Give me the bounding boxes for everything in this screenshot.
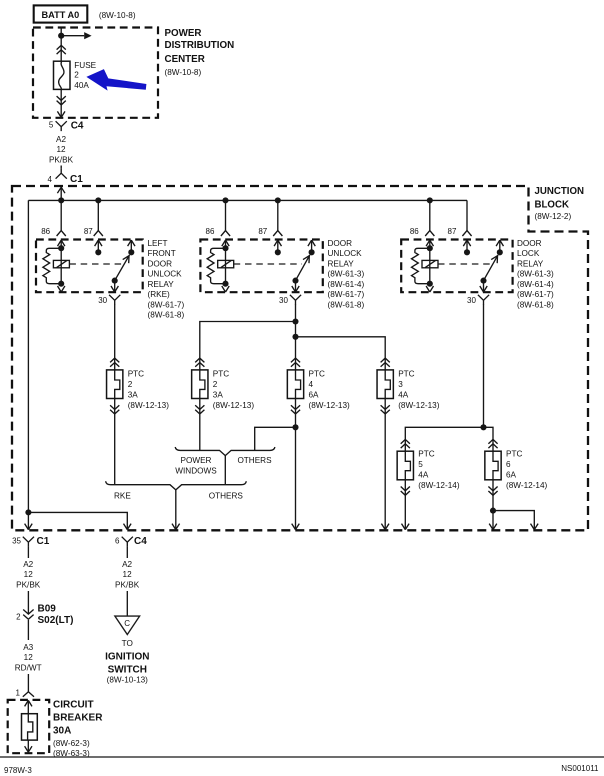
wire bus drop to relay K1 left front door unlock pin 87 — [94, 200, 103, 236]
svg-text:WINDOWS: WINDOWS — [175, 466, 217, 475]
svg-text:POWER: POWER — [181, 456, 212, 465]
svg-text:(8W-61-7): (8W-61-7) — [517, 290, 554, 299]
blue callout arrow pointing at fuse — [86, 69, 146, 91]
svg-text:86: 86 — [206, 227, 215, 236]
svg-text:PTC: PTC — [506, 450, 522, 459]
wire label A2 12 PK/BK (left) — [16, 560, 41, 590]
relay K1 left front door unlock label text — [148, 239, 185, 320]
connector C4 pin 6 (bottom) — [115, 536, 147, 547]
node bus at C1 feed — [58, 197, 64, 203]
brace RKE / OTHERS — [106, 481, 247, 490]
double chevron below fuse — [57, 96, 66, 105]
wire brace output to junction block edge — [172, 490, 180, 530]
node relay K2 door unlock switch bottom — [292, 278, 298, 284]
power distribution center box — [33, 28, 158, 118]
bus wire inside junction block — [28, 199, 467, 201]
wire left feed exits junction block — [25, 512, 33, 529]
connector pin 30 of relay K2 door unlock — [290, 295, 301, 305]
pin label 86 of relay K3 door lock — [410, 227, 419, 236]
relay K1 left front door unlock switch common stub — [128, 240, 135, 252]
mechanical linkage (dashed) of relay K3 door lock — [438, 263, 490, 265]
svg-text:2: 2 — [213, 380, 218, 389]
svg-text:1: 1 — [16, 688, 21, 697]
wire branch right to junction block edge — [493, 511, 538, 530]
pin label 86 of relay K1 left front door unlock — [41, 227, 50, 236]
wire PTC 5 output to junction block edge — [402, 480, 410, 530]
node bus to relay2 pin 86 — [222, 197, 228, 203]
svg-text:3A: 3A — [128, 391, 139, 400]
node relay K1 left front door unlock normally-open contact 87 — [95, 249, 101, 255]
svg-text:POWER: POWER — [165, 28, 202, 39]
splice B09 S02(LT) — [16, 603, 73, 626]
connector pin 30 of relay K1 left front door unlock — [109, 295, 120, 305]
svg-text:2: 2 — [74, 70, 79, 79]
relay K2 door unlock coil wire pin 86 — [222, 240, 229, 284]
svg-text:CIRCUIT: CIRCUIT — [53, 700, 94, 711]
svg-text:S02(LT): S02(LT) — [38, 615, 74, 626]
wire PTC left output down to RKE brace — [114, 399, 116, 485]
pin label 87 of relay K1 left front door unlock — [84, 227, 93, 236]
svg-text:JUNCTION: JUNCTION — [535, 186, 585, 197]
svg-text:978W-3: 978W-3 — [4, 766, 32, 775]
relay K2 door unlock label text — [328, 239, 365, 309]
relay coil of relay K2 door unlock — [218, 260, 234, 267]
arrow coil return exits relay K1 left front door unlock — [58, 286, 65, 292]
wire bus drop to relay K3 door lock pin 87 — [462, 200, 471, 236]
wire branch to PTC 5 and PTC 6 — [405, 427, 493, 451]
svg-text:5: 5 — [49, 121, 54, 130]
svg-text:12: 12 — [123, 570, 133, 579]
wire relay3 pin 30 down — [483, 304, 485, 427]
wire switch to pin 30 of relay K3 door lock — [480, 281, 487, 292]
svg-text:(8W-12-2): (8W-12-2) — [535, 212, 572, 221]
mechanical linkage (dashed) of relay K1 left front door unlock — [69, 263, 121, 265]
connector pin 1 of circuit breaker — [16, 688, 34, 697]
svg-text:(8W-61-7): (8W-61-7) — [148, 300, 185, 309]
relay K3 door lock box — [401, 240, 512, 293]
pin label 30 of relay K2 door unlock — [279, 296, 288, 305]
node relay K2 door unlock switch top contact — [309, 249, 315, 255]
wire below C4 — [126, 547, 128, 558]
svg-text:DISTRIBUTION: DISTRIBUTION — [165, 40, 235, 51]
connector C4 pin 5 (top) — [49, 121, 84, 132]
svg-text:IGNITION: IGNITION — [105, 651, 149, 662]
arrow coil return exits relay K2 door unlock — [222, 286, 229, 292]
arrow wire entering junction block — [57, 187, 65, 200]
svg-text:12: 12 — [24, 570, 34, 579]
svg-text:LOCK: LOCK — [517, 249, 540, 258]
label OTHERS (upper) — [237, 456, 272, 465]
svg-text:(8W-61-4): (8W-61-4) — [328, 280, 365, 289]
node relay K3 door lock coil top — [427, 245, 433, 251]
svg-text:UNLOCK: UNLOCK — [328, 249, 363, 258]
svg-text:PK/BK: PK/BK — [16, 581, 41, 590]
svg-text:(8W-12-13): (8W-12-13) — [398, 401, 440, 410]
node relay3 branch — [480, 424, 486, 430]
svg-text:87: 87 — [84, 227, 93, 236]
svg-text:6A: 6A — [309, 391, 320, 400]
svg-text:(8W-10-8): (8W-10-8) — [99, 11, 136, 20]
node relay K1 left front door unlock coil top — [58, 245, 64, 251]
footer drawing number NS001011 — [561, 764, 599, 773]
double chevron above fuse — [57, 45, 66, 54]
wire below splice — [27, 620, 29, 640]
svg-text:6A: 6A — [506, 470, 517, 479]
svg-text:NS001011: NS001011 — [561, 764, 599, 773]
svg-text:LEFT: LEFT — [148, 239, 168, 248]
footer rule — [0, 756, 604, 758]
svg-text:30: 30 — [98, 296, 107, 305]
svg-text:2: 2 — [128, 380, 133, 389]
node relay K2 door unlock coil top — [222, 245, 228, 251]
circuit breaker box — [8, 700, 50, 753]
wire to off-page reference C — [126, 591, 128, 616]
svg-text:RELAY: RELAY — [517, 259, 544, 268]
battery feed box BATT A0 — [34, 5, 88, 22]
svg-text:TO: TO — [122, 639, 133, 648]
PTC 2 3A thermistor (second) — [192, 358, 255, 414]
pin label 30 of relay K3 door lock — [467, 296, 476, 305]
node bus to relay3 pin 86 — [427, 197, 433, 203]
svg-text:C4: C4 — [134, 536, 147, 547]
svg-text:6: 6 — [115, 537, 120, 546]
svg-text:RKE: RKE — [114, 492, 131, 501]
svg-text:35: 35 — [12, 537, 21, 546]
wire switch to pin 30 of relay K2 door unlock — [292, 281, 299, 292]
svg-text:RD/WT: RD/WT — [15, 663, 42, 672]
label (8W-10-8) for BATT A0 — [99, 11, 136, 20]
svg-text:4A: 4A — [398, 391, 409, 400]
wire PTC 4 output down to junction block edge — [292, 399, 300, 530]
svg-text:A2: A2 — [122, 560, 132, 569]
svg-text:RELAY: RELAY — [328, 259, 355, 268]
svg-text:PTC: PTC — [309, 370, 325, 379]
circuit breaker label text — [53, 700, 103, 758]
wire branch to connector C4 pin 6 — [28, 512, 131, 529]
wire PTC second output down to POWER WINDOWS brace — [199, 399, 201, 451]
arrow coil return exits relay K3 door lock — [426, 286, 433, 292]
arrow feed to other circuits — [61, 32, 91, 39]
svg-text:3: 3 — [398, 380, 403, 389]
svg-text:(8W-61-7): (8W-61-7) — [328, 290, 365, 299]
wire label A2 12 PK/BK (top) — [49, 135, 74, 164]
svg-text:PTC: PTC — [418, 450, 434, 459]
relay K3 door lock switch common stub — [496, 240, 503, 252]
svg-text:12: 12 — [56, 145, 66, 154]
svg-text:(8W-12-13): (8W-12-13) — [309, 401, 351, 410]
svg-text:(8W-12-13): (8W-12-13) — [213, 401, 255, 410]
wire to circuit breaker — [27, 674, 29, 692]
wire bus drop to relay K2 door unlock pin 86 — [221, 200, 230, 236]
resistor inside relay K2 door unlock — [207, 248, 225, 283]
wire relay2 pin 30 down to PTC — [295, 304, 297, 370]
wire circuit breaker output — [25, 740, 32, 752]
node relay K3 door lock normally-open contact 87 — [464, 249, 470, 255]
node relay2 branch to right PTC — [292, 334, 298, 340]
PTC 2 3A thermistor (left) — [107, 358, 170, 414]
pin label 87 of relay K3 door lock — [448, 227, 457, 236]
svg-text:BATT A0: BATT A0 — [42, 10, 80, 20]
svg-text:PTC: PTC — [128, 370, 144, 379]
svg-text:B09: B09 — [38, 603, 57, 614]
label POWER WINDOWS — [175, 456, 217, 476]
svg-text:FRONT: FRONT — [148, 249, 176, 258]
wire relay1 pin 30 down to PTC — [114, 304, 116, 370]
pin label 30 of relay K1 left front door unlock — [98, 296, 107, 305]
switch arm of relay K3 door lock — [484, 255, 499, 281]
node relay K1 left front door unlock coil bottom — [58, 281, 64, 287]
svg-text:86: 86 — [41, 227, 50, 236]
wire battery feed down into PDC — [60, 28, 62, 62]
wire branch to PTC 2 (second) — [200, 322, 296, 370]
relay K2 door unlock switch common stub — [308, 240, 315, 252]
node relay2 branch to left PTC — [292, 318, 298, 324]
wire bus drop to relay K1 left front door unlock pin 86 — [57, 200, 66, 236]
relay K1 left front door unlock box — [36, 240, 143, 293]
svg-text:PK/BK: PK/BK — [115, 581, 140, 590]
circuit breaker element — [22, 714, 38, 740]
svg-text:(8W-62-3): (8W-62-3) — [53, 739, 90, 748]
wire PTC 6 output to junction block edge — [489, 480, 497, 530]
svg-text:A3: A3 — [23, 643, 33, 652]
node bus to relay2 pin 87 — [275, 197, 281, 203]
relay K3 door lock coil wire pin 86 — [426, 240, 433, 284]
wire bus drop to relay K3 door lock pin 86 — [425, 200, 434, 236]
wire PTC 3 output down to junction block edge — [381, 399, 389, 530]
PTC 3 4A thermistor — [377, 358, 440, 414]
node bus to relay1 pin 87 — [95, 197, 101, 203]
wire bus left branch down to C1 pin 35 — [27, 200, 29, 512]
svg-text:(8W-61-8): (8W-61-8) — [328, 300, 365, 309]
node relay K2 door unlock normally-open contact 87 — [275, 249, 281, 255]
svg-text:A2: A2 — [56, 135, 66, 144]
svg-text:DOOR: DOOR — [328, 239, 353, 248]
svg-text:CENTER: CENTER — [165, 54, 205, 65]
svg-text:86: 86 — [410, 227, 419, 236]
wire branch to OTHERS brace — [255, 427, 296, 450]
svg-text:3A: 3A — [213, 391, 224, 400]
svg-text:UNLOCK: UNLOCK — [148, 270, 183, 279]
brace POWER WINDOWS / OTHERS — [175, 447, 275, 456]
svg-text:C4: C4 — [71, 121, 84, 132]
node relay K3 door lock switch bottom — [480, 278, 486, 284]
svg-text:5: 5 — [418, 460, 423, 469]
node battery feed junction — [58, 33, 64, 39]
svg-text:2: 2 — [16, 613, 21, 622]
wire to splice B09 — [27, 591, 29, 614]
svg-text:OTHERS: OTHERS — [237, 456, 272, 465]
svg-text:(8W-61-8): (8W-61-8) — [517, 300, 554, 309]
pin label 86 of relay K2 door unlock — [206, 227, 215, 236]
svg-text:PK/BK: PK/BK — [49, 155, 74, 164]
node PTC 6 output branch — [490, 508, 496, 514]
relay K1 left front door unlock pin 87 stub — [95, 240, 102, 252]
svg-text:PTC: PTC — [213, 370, 229, 379]
svg-text:C1: C1 — [37, 536, 50, 547]
svg-text:A2: A2 — [23, 560, 33, 569]
label TO IGNITION SWITCH — [105, 639, 149, 685]
svg-text:4: 4 — [309, 380, 314, 389]
PTC 5 4A thermistor — [397, 439, 460, 495]
svg-text:87: 87 — [258, 227, 267, 236]
svg-text:BLOCK: BLOCK — [535, 200, 569, 211]
svg-text:PTC: PTC — [398, 370, 414, 379]
relay K3 door lock pin 87 stub — [463, 240, 470, 252]
wire below C1 — [27, 547, 29, 558]
switch arm of relay K1 left front door unlock — [115, 255, 130, 281]
switch arm of relay K2 door unlock — [296, 255, 310, 281]
svg-text:(8W-10-8): (8W-10-8) — [165, 68, 202, 77]
label OTHERS (lower) — [209, 492, 244, 501]
node relay K1 left front door unlock switch bottom — [112, 278, 118, 284]
relay coil of relay K1 left front door unlock — [53, 260, 69, 267]
wire branch to PTC 3 — [296, 337, 386, 370]
svg-text:(RKE): (RKE) — [148, 290, 171, 299]
PTC 4 6A thermistor — [287, 358, 350, 414]
svg-text:4: 4 — [48, 175, 53, 184]
relay K2 door unlock pin 87 stub — [274, 240, 281, 252]
node feed branch lower left — [25, 509, 31, 515]
wire into connector C1 — [60, 166, 62, 169]
footer sheet number 978W-3 — [4, 766, 32, 775]
svg-text:(8W-61-8): (8W-61-8) — [148, 311, 185, 320]
svg-text:12: 12 — [24, 653, 34, 662]
svg-text:30A: 30A — [53, 726, 71, 737]
svg-text:4A: 4A — [418, 470, 429, 479]
svg-text:OTHERS: OTHERS — [209, 492, 244, 501]
svg-text:40A: 40A — [74, 81, 89, 90]
node relay K1 left front door unlock switch top contact — [128, 249, 134, 255]
wire label A3 12 RD/WT — [15, 643, 42, 672]
svg-text:(8W-12-14): (8W-12-14) — [418, 481, 460, 490]
svg-text:(8W-10-13): (8W-10-13) — [107, 676, 149, 685]
svg-text:SWITCH: SWITCH — [108, 665, 147, 676]
svg-text:C: C — [124, 619, 130, 628]
wire brace output down — [224, 456, 226, 485]
svg-text:30: 30 — [279, 296, 288, 305]
junction block title — [535, 186, 585, 221]
off-page reference triangle C — [115, 616, 140, 634]
svg-text:87: 87 — [448, 227, 457, 236]
connector C1 pin 35 (bottom) — [12, 536, 50, 547]
svg-text:30: 30 — [467, 296, 476, 305]
relay K2 door unlock box — [200, 240, 322, 293]
PTC 6 6A thermistor — [485, 439, 548, 495]
svg-text:RELAY: RELAY — [148, 280, 175, 289]
svg-text:FUSE: FUSE — [74, 61, 96, 70]
svg-text:BREAKER: BREAKER — [53, 713, 103, 724]
svg-text:(8W-12-13): (8W-12-13) — [128, 401, 170, 410]
connector pin 30 of relay K3 door lock — [478, 295, 489, 305]
relay K3 door lock label text — [517, 239, 554, 309]
resistor inside relay K1 left front door unlock — [43, 248, 61, 283]
wire fuse to PDC edge — [57, 89, 65, 117]
node relay K2 door unlock coil bottom — [222, 281, 228, 287]
wire label A2 12 PK/BK (right) — [115, 560, 140, 590]
node PTC4 branch to OTHERS — [292, 424, 298, 430]
svg-text:(8W-61-3): (8W-61-3) — [328, 270, 365, 279]
svg-text:(8W-12-14): (8W-12-14) — [506, 481, 548, 490]
mechanical linkage (dashed) of relay K2 door unlock — [234, 263, 302, 265]
svg-text:(8W-61-3): (8W-61-3) — [517, 270, 554, 279]
connector C1 pin 4 (junction block feed) — [48, 169, 84, 185]
wire bus drop to relay K2 door unlock pin 87 — [273, 200, 282, 236]
relay coil of relay K3 door lock — [422, 260, 438, 267]
junction block outline — [12, 186, 588, 530]
arrow wire entering circuit breaker — [25, 700, 32, 713]
svg-text:(8W-61-4): (8W-61-4) — [517, 280, 554, 289]
relay K1 left front door unlock coil wire pin 86 — [58, 240, 65, 284]
svg-text:C1: C1 — [70, 174, 83, 185]
pin label 87 of relay K2 door unlock — [258, 227, 267, 236]
fuse FUSE 2 40A — [54, 61, 97, 90]
svg-text:6: 6 — [506, 460, 511, 469]
label RKE — [114, 492, 131, 501]
node relay K3 door lock coil bottom — [427, 281, 433, 287]
PDC title text — [165, 28, 235, 77]
node relay K3 door lock switch top contact — [497, 249, 503, 255]
wire switch to pin 30 of relay K1 left front door unlock — [111, 281, 118, 292]
svg-text:DOOR: DOOR — [517, 239, 542, 248]
svg-text:DOOR: DOOR — [148, 259, 173, 268]
resistor inside relay K3 door lock — [412, 248, 430, 283]
